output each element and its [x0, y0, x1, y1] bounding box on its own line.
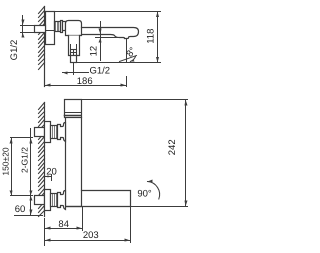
dimension 60: bottom extension line	[15, 215, 43, 217]
shower port centerline stub	[73, 64, 75, 75]
shower port thread box	[71, 50, 77, 56]
lower inlet fitting: threaded connector	[51, 194, 58, 207]
shower outlet port (side view)	[69, 36, 80, 56]
spout underside extension line	[96, 37, 123, 39]
wall line (front view)	[44, 103, 46, 217]
connector neck (side view)	[63, 22, 66, 31]
dimension 20: extension stub	[51, 175, 53, 181]
dimension 203: line with arrows	[45, 239, 131, 242]
svg-text:84: 84	[58, 219, 69, 230]
90 degree swivel arc with arrowhead	[148, 180, 160, 200]
dimension 118: top extension line	[55, 11, 161, 13]
svg-text:242: 242	[167, 139, 178, 155]
dimension 118: bottom extension line	[71, 62, 161, 64]
dimension 84: line with arrows	[45, 227, 83, 230]
extension lines for 150 and 2-G1/2	[11, 138, 33, 196]
wall hatching (side view)	[39, 7, 45, 70]
valve body (side view)	[66, 21, 82, 36]
upper inlet fitting: escutcheon	[45, 122, 51, 143]
wall hatching (front view)	[39, 103, 45, 217]
svg-text:60: 60	[15, 204, 26, 215]
dimension G1/2 nipple: dimension line with arrows	[22, 16, 25, 38]
dimension 12: dimension line with arrows	[99, 22, 102, 61]
dimension 2-G1/2: line with arrows	[30, 129, 33, 196]
lower inlet fitting: nut and flare into body	[58, 191, 66, 210]
svg-text:2-G1/2: 2-G1/2	[20, 147, 30, 173]
escutcheon flange (side view)	[46, 12, 55, 45]
svg-text:G1/2: G1/2	[90, 65, 111, 76]
svg-text:90°: 90°	[137, 189, 152, 200]
lower inlet fitting: escutcheon	[45, 190, 51, 211]
dimension 20: line with arrows	[45, 176, 52, 178]
dimension G1/2 nipple: extension lines	[21, 26, 35, 33]
8 degree slant line	[120, 56, 137, 62]
upper inlet fitting: threaded connector	[51, 126, 58, 139]
left extension line below wall	[44, 219, 46, 246]
inlet nipple through wall	[35, 26, 46, 33]
upper inlet fitting: nipple through wall	[35, 128, 45, 137]
spout (side profile with outlet lip)	[82, 28, 139, 39]
spout bottom line	[66, 206, 131, 208]
wall line (side view)	[44, 7, 46, 87]
mixer body column (front view)	[66, 118, 82, 207]
svg-text:150±20: 150±20	[0, 147, 10, 176]
svg-text:G1/2: G1/2	[9, 40, 20, 61]
dimension 186: dimension line with arrows	[45, 84, 127, 87]
leader line G1/2 with arrow	[63, 72, 89, 75]
dimension 84: right extension line	[82, 207, 84, 231]
spout (front view, pointing right)	[82, 191, 131, 207]
svg-text:186: 186	[77, 76, 93, 87]
upper inlet fitting: nut and flare into body	[58, 123, 66, 142]
dimension 186: right extension stub	[126, 77, 128, 87]
dimension 60: line with arrows	[30, 196, 33, 216]
spout outlet extension line	[126, 39, 128, 63]
svg-text:118: 118	[145, 29, 156, 44]
handle cap (front view)	[65, 100, 82, 118]
connector nut (side view)	[61, 21, 63, 33]
shower port lower step	[71, 56, 77, 63]
svg-text:203: 203	[83, 230, 99, 241]
svg-text:12: 12	[89, 46, 100, 57]
threaded connector (side view)	[55, 22, 61, 32]
svg-text:20: 20	[46, 167, 57, 178]
dimension 203: right extension line	[130, 207, 132, 243]
8 degree arc with arrowhead	[130, 56, 136, 61]
dimension 118: dimension line with arrows	[156, 12, 159, 63]
dimension 150+-20: line with arrows	[10, 138, 13, 196]
dimension 242: bottom extension line	[131, 206, 188, 208]
dimension 242: line with arrows	[185, 100, 188, 207]
lower inlet fitting: nipple through wall	[35, 196, 45, 205]
dimension 242: top extension line	[82, 99, 188, 101]
